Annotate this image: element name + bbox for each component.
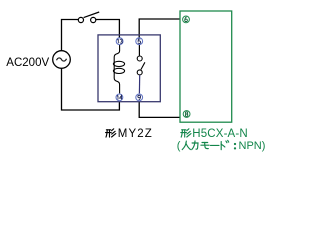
counter pin 8 (183, 111, 190, 118)
relay U1 MY2Z box (98, 35, 160, 102)
relay pin 9 (136, 94, 143, 101)
wire: AC source bottom to relay pin 14 (62, 68, 120, 110)
AC source V1 (53, 51, 71, 69)
svg-text:AC200V: AC200V (6, 57, 49, 69)
label 形H5CX-A-N (181, 128, 248, 140)
wire: AC source top to switch (62, 20, 79, 52)
wire: relay pin 9 to counter pin 8 (139, 101, 180, 118)
relay pin 14 (116, 94, 123, 101)
svg-text:MY2Z: MY2Z (118, 128, 153, 140)
svg-text:H5CX-A-N: H5CX-A-N (192, 128, 248, 140)
relay pin 13 (116, 38, 123, 45)
switch S1 (78, 12, 99, 23)
svg-text:NPN): NPN) (239, 140, 266, 152)
counter U2 H5CX box (180, 11, 232, 122)
counter pin 6 (183, 16, 190, 23)
svg-text:(: ( (177, 140, 181, 152)
relay contact (pins 5-9) (137, 45, 145, 94)
wire: relay pin 5 to counter pin 6 (139, 19, 180, 38)
relay coil (113, 45, 124, 94)
label (入力モード：NPN) (177, 140, 266, 152)
label 形MY2Z (106, 128, 153, 140)
wire: switch to relay pin 13 (96, 20, 120, 39)
relay pin 5 (136, 38, 143, 45)
